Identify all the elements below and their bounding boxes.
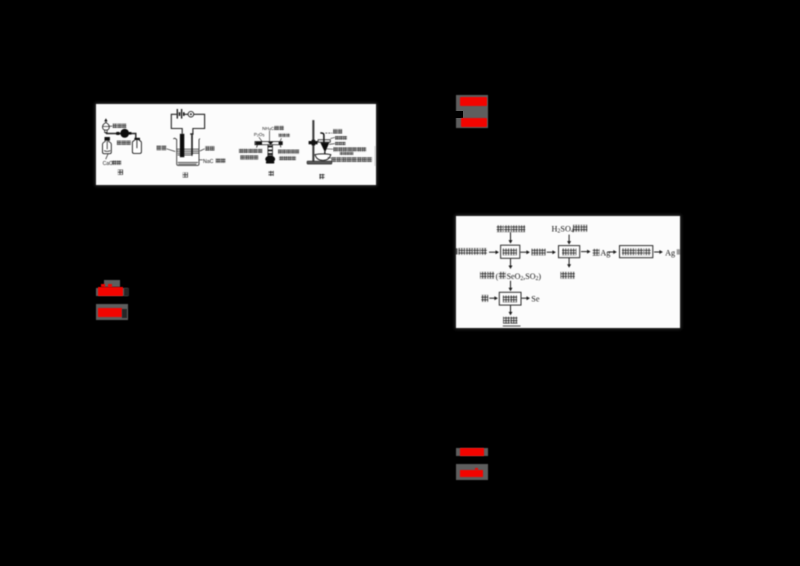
setup ding: stand pole xyxy=(312,120,314,161)
setup bing: label 湿润的红色石蕊试纸 xyxy=(278,149,299,153)
text 气体(含SeO2、SO2) xyxy=(480,272,494,279)
setup jia: collection bottle xyxy=(132,140,141,153)
setup bing: tube end drips xyxy=(256,144,280,147)
highlight TR: red answer mark 1 xyxy=(460,97,487,106)
cut glyph at panel right edge xyxy=(677,249,680,254)
arrow gas down into absorb box xyxy=(509,281,513,291)
highlight L1: faint mark xyxy=(124,288,129,296)
setup jia: label 碱石灰 xyxy=(117,140,131,144)
figure panel: lab apparatus (4 setups) xyxy=(96,104,376,185)
setup jia: delivery tube xyxy=(106,132,136,139)
highlight TR: black notch xyxy=(453,111,463,118)
arrow water into absorb xyxy=(489,296,498,300)
setup jia: funnel stopper triangle xyxy=(104,118,107,121)
highlight TR: red answer mark 2 xyxy=(461,118,487,128)
setup jia: label 浓氨水 xyxy=(109,125,112,127)
setup yi: label NaCl溶液 xyxy=(199,159,214,165)
box 吸收 (absorb) xyxy=(499,292,521,305)
setup bing: horizontal tube xyxy=(255,141,283,144)
setup ding: label 氯酸钾 xyxy=(329,142,335,145)
text 母液 underlined xyxy=(503,317,517,324)
setup yi: iron nail xyxy=(190,133,193,156)
setup bing: label NH4Cl固体 xyxy=(262,126,275,132)
svg-text:NH4Cl: NH4Cl xyxy=(262,126,275,132)
setup ding: magnesium ribbon xyxy=(320,133,332,143)
setup jia: label CaO固体 xyxy=(102,154,112,167)
svg-text:CaO: CaO xyxy=(102,161,112,167)
box 焙烧 (roast) xyxy=(501,245,520,258)
highlight TR: gray block xyxy=(456,95,489,128)
svg-text:H2SO4: H2SO4 xyxy=(552,224,574,234)
highlight L2: gray strip xyxy=(96,304,128,319)
highlight L1: red bump b xyxy=(108,284,112,287)
text 烧渣 xyxy=(532,249,546,256)
highlight L1: red bump a xyxy=(101,284,105,287)
setup ding: label 的混合物 xyxy=(339,152,352,155)
highlight L2: faint mark xyxy=(122,309,127,318)
setup jia: dropping funnel bulb xyxy=(102,121,109,130)
setup ding: clamp boss xyxy=(308,140,317,146)
setup ding: evaporating dish xyxy=(315,154,331,161)
highlight L1: gray cap xyxy=(104,280,120,287)
setup yi: graphite electrode xyxy=(180,134,184,157)
cut glyph at panel left edge xyxy=(456,248,458,254)
setup bing: center joint tube xyxy=(268,144,273,155)
highlight BR2: red mark xyxy=(460,470,483,478)
setup jia: left flask stopper xyxy=(104,137,109,141)
setup yi: battery cell xyxy=(177,109,184,119)
highlight L1: gray strip xyxy=(96,288,128,296)
arrow leach to crude Ag xyxy=(581,250,591,254)
arrow acid into leach box xyxy=(567,235,571,245)
text 滤液 xyxy=(561,272,575,279)
svg-text:Ag: Ag xyxy=(665,248,675,257)
setup bing: caption 丙 xyxy=(268,171,273,176)
setup bing: label P2O5 xyxy=(254,132,265,138)
setup bing: label 湿润的蓝色石蕊试纸 xyxy=(239,148,262,152)
setup jia: caption 甲 xyxy=(117,169,122,174)
text H2SO4溶液 xyxy=(552,224,574,234)
text 富氧空气 xyxy=(497,225,526,232)
setup yi: label 铁钉 xyxy=(205,146,214,150)
setup yi: circuit wires xyxy=(171,114,204,134)
setup ding: label 二氧化锰和铝粉 xyxy=(326,148,333,150)
setup jia: CaO flask xyxy=(102,140,111,153)
setup jia: stopcock xyxy=(104,130,107,133)
setup yi: label 石墨 xyxy=(156,145,166,150)
setup yi: solution hatch lines xyxy=(177,149,199,164)
setup ding: ring plate xyxy=(318,139,330,142)
setup ding: funnel (inverted) xyxy=(320,142,329,153)
svg-text:NaC: NaC xyxy=(203,159,214,165)
setup bing: label 碱石灰 xyxy=(278,133,289,137)
setup bing: burner base xyxy=(265,155,275,163)
text 富硒废料 xyxy=(458,248,487,255)
setup yi: meter circle xyxy=(188,111,194,117)
arrow slag to leach xyxy=(547,250,556,254)
faint scan line at right edge xyxy=(374,146,376,166)
setup ding: label 铺有沙子的蒸发皿 xyxy=(327,156,330,159)
arrow feed into roast xyxy=(489,250,499,254)
setup jia: soda-lime bulb (ball) xyxy=(120,129,131,138)
arrow crude Ag to refine xyxy=(607,250,616,254)
arrow roast down to gas xyxy=(509,259,513,269)
box 酸浸 (acid leach) xyxy=(559,246,580,258)
setup ding: label 镁条 xyxy=(333,129,342,133)
setup bing: leader lines xyxy=(259,130,282,141)
svg-text:Se: Se xyxy=(531,295,540,304)
text Se xyxy=(531,295,540,304)
svg-text:P2O5: P2O5 xyxy=(254,132,265,138)
highlight L2: red mark xyxy=(98,308,123,318)
highlight BR1: red mark xyxy=(460,448,484,456)
highlight BR2: red bump xyxy=(475,468,478,470)
arrow oxygen-air into roast box xyxy=(509,232,513,243)
box 电解精炼 (electrorefining) xyxy=(620,246,653,258)
setup ding: caption 丁 xyxy=(319,174,324,179)
svg-text:(: ( xyxy=(496,272,499,281)
text Ag product xyxy=(665,248,675,257)
text 水 xyxy=(481,295,488,302)
highlight BR2: gray block xyxy=(456,464,488,480)
arrow leach down to filtrate xyxy=(567,258,571,268)
svg-text:Ag: Ag xyxy=(600,249,610,258)
arrow absorb down to mother liquor xyxy=(509,305,513,315)
setup yi: beaker xyxy=(173,138,200,165)
text 粗Ag xyxy=(593,249,600,256)
flowchart panel: Se/Ag recovery process xyxy=(456,216,680,328)
highlight L1: red mark xyxy=(98,287,124,296)
arrow refine to Ag xyxy=(654,250,663,254)
setup jia: tube clamp xyxy=(116,132,120,135)
arrow roast to slag xyxy=(520,250,530,254)
setup jia: collection bottle stopper xyxy=(134,138,140,140)
setup ding: stand base xyxy=(307,161,332,164)
highlight BR1: gray strip xyxy=(456,448,488,457)
setup ding: label 短颈漏斗 xyxy=(330,137,334,138)
arrow absorb to Se xyxy=(522,296,530,300)
setup yi: caption 乙 xyxy=(182,172,187,177)
